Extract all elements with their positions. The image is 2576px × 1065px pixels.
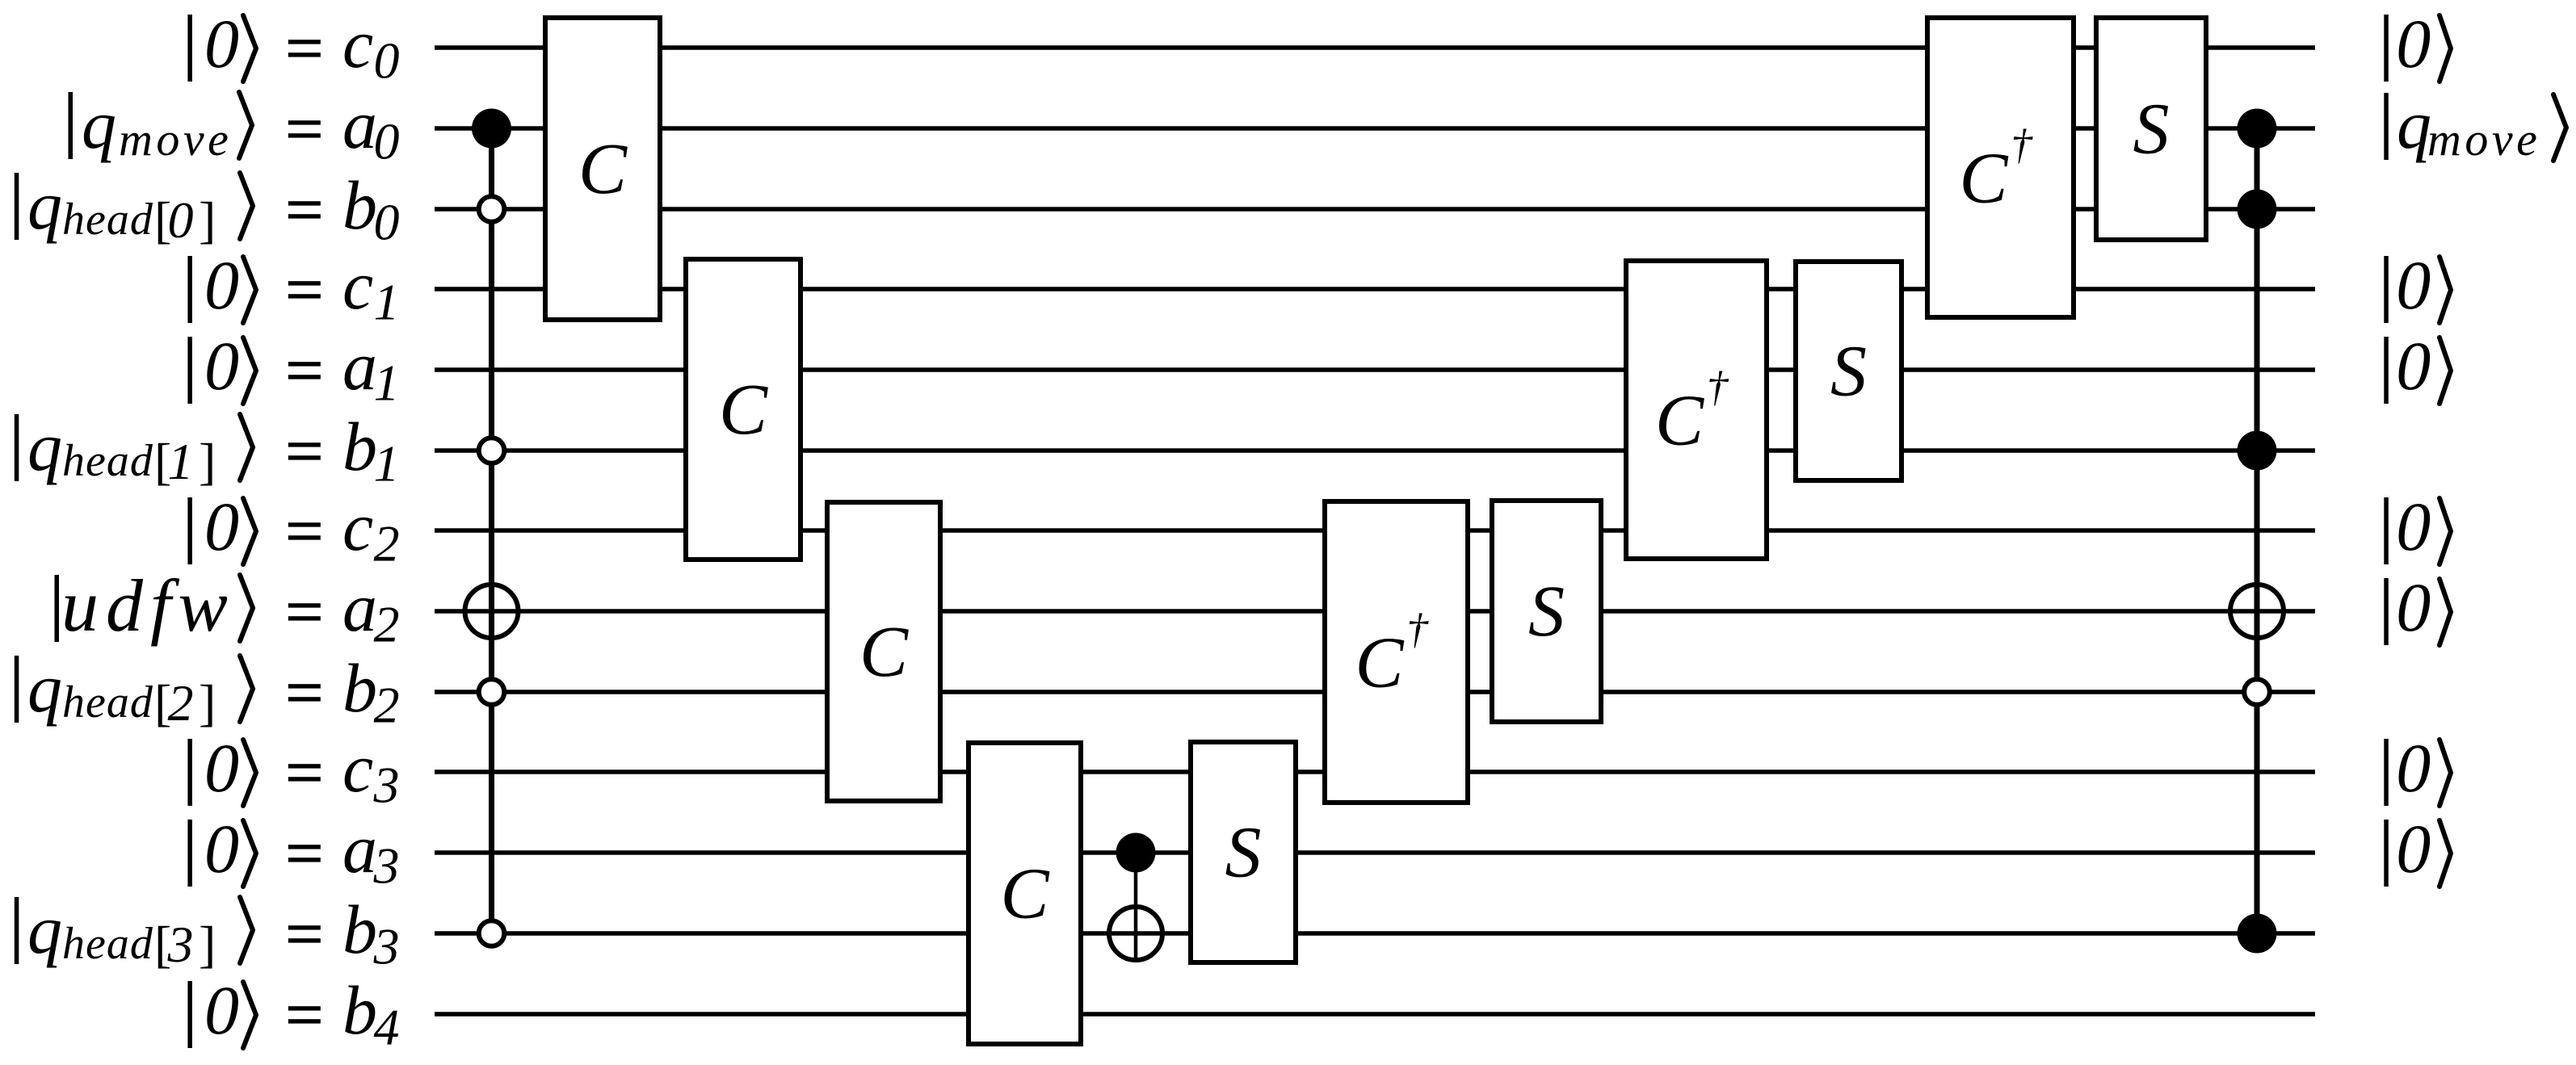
svg-text:q: q [82, 86, 116, 163]
svg-text:q: q [2397, 86, 2431, 163]
svg-text:2: 2 [374, 596, 400, 653]
svg-text:S: S [1528, 572, 1565, 652]
svg-text:a: a [342, 568, 377, 646]
svg-text:a: a [342, 327, 377, 405]
svg-text:3: 3 [167, 916, 194, 973]
svg-text:0: 0 [204, 971, 239, 1049]
svg-text:S: S [1225, 813, 1262, 893]
svg-text:C: C [1655, 381, 1704, 461]
svg-text:c: c [342, 729, 373, 807]
svg-text:0: 0 [204, 5, 239, 82]
svg-text:move: move [2427, 113, 2540, 166]
svg-text:]: ] [199, 433, 216, 490]
svg-text:c: c [342, 5, 373, 82]
svg-text:C: C [1000, 854, 1049, 934]
svg-text:C: C [859, 612, 909, 692]
svg-text:q: q [27, 166, 62, 244]
svg-text:4: 4 [374, 999, 400, 1056]
svg-text:q: q [27, 649, 62, 727]
svg-text:0: 0 [204, 488, 239, 565]
svg-text:3: 3 [373, 757, 400, 814]
svg-text:0: 0 [168, 191, 194, 249]
svg-text:C: C [578, 129, 628, 209]
svg-text:†: † [1406, 606, 1429, 653]
svg-text:b: b [342, 166, 377, 244]
svg-text:S: S [2133, 90, 2170, 170]
svg-text:0: 0 [2396, 327, 2431, 405]
svg-text:0: 0 [2396, 729, 2431, 807]
svg-text:3: 3 [373, 837, 400, 895]
svg-text:C: C [1959, 139, 2008, 219]
svg-text:a: a [342, 86, 377, 163]
svg-text:head: head [62, 436, 153, 486]
svg-text:0: 0 [2396, 488, 2431, 565]
svg-text:0: 0 [374, 32, 400, 90]
svg-text:0: 0 [2396, 5, 2431, 82]
svg-text:3: 3 [373, 918, 400, 975]
svg-text:]: ] [199, 916, 216, 973]
svg-text:c: c [342, 488, 373, 565]
svg-text:q: q [27, 891, 62, 968]
svg-text:2: 2 [374, 515, 400, 572]
svg-text:a: a [342, 810, 377, 887]
svg-text:]: ] [199, 191, 216, 249]
svg-text:0: 0 [204, 246, 239, 324]
svg-text:b: b [342, 971, 377, 1049]
svg-text:head: head [62, 195, 153, 245]
svg-text:2: 2 [374, 677, 400, 734]
svg-text:b: b [342, 891, 377, 968]
svg-text:move: move [119, 113, 232, 166]
svg-text:0: 0 [204, 327, 239, 405]
svg-text:C: C [719, 370, 768, 450]
svg-text:1: 1 [168, 433, 194, 490]
svg-text:c: c [342, 246, 373, 324]
svg-text:q: q [27, 408, 62, 485]
svg-text:2: 2 [168, 674, 194, 732]
svg-text:S: S [1830, 332, 1867, 412]
svg-text:0: 0 [2396, 246, 2431, 324]
svg-text:C: C [1355, 623, 1404, 703]
svg-text:†: † [2011, 122, 2033, 169]
svg-text:head: head [62, 919, 153, 969]
svg-text:b: b [342, 649, 377, 727]
svg-text:]: ] [199, 674, 216, 732]
svg-text:0: 0 [374, 113, 400, 170]
svg-text:0: 0 [2396, 810, 2431, 887]
svg-text:0: 0 [204, 729, 239, 807]
svg-text:1: 1 [374, 435, 400, 493]
svg-text:b: b [342, 408, 377, 485]
svg-text:udfw: udfw [61, 564, 235, 647]
svg-text:†: † [1707, 364, 1729, 411]
svg-text:0: 0 [204, 810, 239, 887]
svg-text:1: 1 [374, 354, 400, 412]
svg-text:head: head [62, 677, 153, 727]
svg-text:0: 0 [374, 194, 400, 251]
svg-text:0: 0 [2396, 568, 2431, 646]
svg-text:1: 1 [374, 274, 400, 331]
